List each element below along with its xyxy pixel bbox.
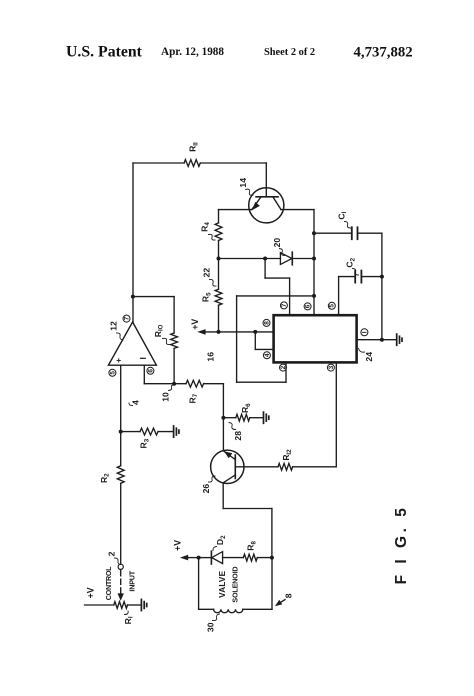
label 12 with leader xyxy=(109,321,123,340)
svg-text:VALVE: VALVE xyxy=(218,570,227,597)
wire: C2 left to IC pin5 xyxy=(338,277,340,316)
wire: +V/top rail left column to op-amp pin 7 xyxy=(132,163,134,322)
svg-text:7: 7 xyxy=(123,316,130,320)
resistor R5 xyxy=(201,259,222,332)
svg-text:Apr. 12, 1988: Apr. 12, 1988 xyxy=(161,46,224,58)
pin 1 xyxy=(361,329,368,336)
resistor R3 to ground xyxy=(121,428,174,448)
wire: R7 down to Q26 collector xyxy=(222,384,224,451)
svg-text:6: 6 xyxy=(147,369,154,373)
node: diode anode branch to pin 7 xyxy=(263,257,267,261)
transistor Q26 xyxy=(211,450,244,483)
svg-text:28: 28 xyxy=(233,431,243,441)
resistor R11 xyxy=(133,142,266,166)
resistor R10 feedback xyxy=(133,297,178,384)
capacitor C2 xyxy=(339,257,382,282)
svg-text:5: 5 xyxy=(329,304,336,308)
transistor Q14 xyxy=(249,188,284,223)
svg-text:I: I xyxy=(361,331,368,333)
op-amp pin 6 circle xyxy=(147,367,154,374)
svg-text:6: 6 xyxy=(305,304,312,308)
svg-text:U.S. Patent: U.S. Patent xyxy=(66,44,143,61)
wire: op-amp + input column node 4 xyxy=(120,365,122,466)
label 20 with leader xyxy=(272,238,284,256)
label 22 with leader xyxy=(202,268,216,286)
+V arrow at solenoid row xyxy=(180,555,199,561)
terminal node 2 (control input) xyxy=(118,564,123,569)
pin 8 xyxy=(263,319,270,326)
svg-text:F I G. 5: F I G. 5 xyxy=(393,505,410,585)
wire: Q14 collector to node 314 xyxy=(281,209,314,211)
op-amp pin 5 circle xyxy=(109,369,116,376)
svg-text:30: 30 xyxy=(205,622,215,632)
wire: diode junction to IC pin 7 xyxy=(265,259,290,316)
ground (R3) xyxy=(174,426,179,437)
dashed control-input link xyxy=(120,571,122,595)
svg-text:2: 2 xyxy=(280,365,287,369)
svg-text:2: 2 xyxy=(107,551,117,556)
valve solenoid box 8 with coil 30 xyxy=(199,558,272,613)
IC U24 timer block xyxy=(274,315,357,362)
resistor R2 xyxy=(99,466,124,564)
svg-text:7: 7 xyxy=(281,303,288,307)
svg-text:4: 4 xyxy=(131,400,141,405)
svg-text:16: 16 xyxy=(206,352,216,362)
diode D2 flyback xyxy=(199,535,244,564)
op-amp pin 7 circle xyxy=(123,315,130,322)
wire: Q26 emitter to node 8 xyxy=(223,483,272,558)
label 8 with arrow xyxy=(275,593,294,606)
ground (R1) xyxy=(141,599,146,610)
svg-text:3: 3 xyxy=(328,365,335,369)
ground (pin 1) xyxy=(397,334,402,345)
svg-text:SOLENOID: SOLENOID xyxy=(230,567,239,603)
svg-text:4,737,882: 4,737,882 xyxy=(354,45,413,61)
label 26 with leader xyxy=(201,476,215,493)
svg-text:CONTROL: CONTROL xyxy=(104,566,113,600)
resistor R6 to ground xyxy=(223,403,263,421)
svg-text:10: 10 xyxy=(161,392,171,402)
diode D20 xyxy=(280,252,314,265)
svg-text:14: 14 xyxy=(238,178,248,188)
svg-text:8: 8 xyxy=(263,321,270,325)
label 4 with leader xyxy=(129,400,141,406)
svg-text:Sheet 2 of 2: Sheet 2 of 2 xyxy=(264,47,315,58)
wire: Q14 emitter to R4 xyxy=(219,209,252,211)
pin 4 xyxy=(263,352,270,359)
node: R4/R5/diode row junction xyxy=(217,257,221,261)
wire: branch to IC pin 4 xyxy=(255,332,273,350)
wire: IC pin 3 down to R12 xyxy=(335,362,337,466)
svg-text:4: 4 xyxy=(264,353,271,357)
pin 6 xyxy=(304,303,311,310)
svg-text:+V: +V xyxy=(86,587,96,598)
svg-text:8: 8 xyxy=(284,593,294,598)
resistor R8 xyxy=(243,541,272,561)
pin 7 xyxy=(280,302,287,309)
label 28 with leader xyxy=(229,423,243,441)
wire: vertical net x=314 (Q14 collector, C1, D20, trig) to IC pin6 xyxy=(313,210,315,316)
svg-text:20: 20 xyxy=(272,238,282,248)
resistor R7 xyxy=(186,380,223,403)
label 2 with leader xyxy=(107,551,121,564)
wire: trigger/threshold loop to pins 2,6 xyxy=(237,296,314,382)
wire: diode row xyxy=(219,258,281,260)
svg-text:+V: +V xyxy=(190,319,200,330)
svg-text:5: 5 xyxy=(109,371,116,375)
label 30 with leader xyxy=(205,614,219,632)
label 14 with leader xyxy=(238,178,253,195)
resistor R12 xyxy=(278,449,336,470)
wire: +V rail row 16 xyxy=(197,329,273,335)
wire: right column C1/C2 to pin1 ground rail xyxy=(381,233,383,340)
pin 3 xyxy=(327,364,334,371)
label 24 with leader xyxy=(359,349,375,362)
wire: IC pin1 to ground xyxy=(357,339,397,341)
potentiometer R1 with +V feed xyxy=(85,602,142,625)
wire: Q26 base to R12 xyxy=(235,466,278,468)
svg-text:26: 26 xyxy=(201,484,211,494)
wire: R11 to transistor 14 base xyxy=(265,163,267,197)
node: junction op-amp pin7 / R10 branch xyxy=(131,295,135,299)
capacitor C1 xyxy=(314,211,382,239)
svg-text:+: + xyxy=(116,355,121,365)
ground (R6) xyxy=(264,412,269,423)
svg-text:12: 12 xyxy=(109,321,119,331)
pin 2 xyxy=(280,364,287,371)
op-amp U12 xyxy=(108,322,156,365)
label 10 with leader xyxy=(161,385,174,402)
svg-text:INPUT: INPUT xyxy=(127,570,136,591)
svg-text:+V: +V xyxy=(173,540,183,551)
resistor R4 xyxy=(199,210,222,259)
svg-text:22: 22 xyxy=(202,268,212,278)
wire: op-amp output to node 10 row xyxy=(144,365,186,384)
svg-text:24: 24 xyxy=(364,352,374,362)
pin 5 xyxy=(328,302,335,309)
